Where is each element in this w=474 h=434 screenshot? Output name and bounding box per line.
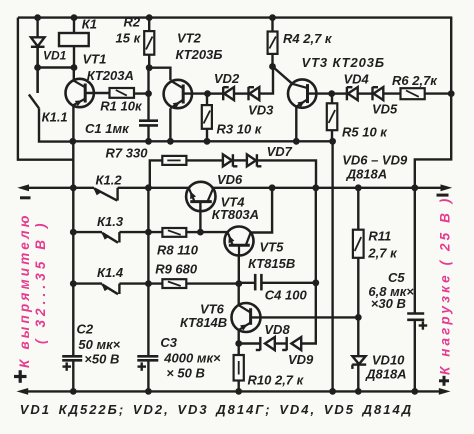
- svg-text:КТ814В: КТ814В: [180, 315, 227, 330]
- relay coil K1: [59, 33, 89, 46]
- resistor R6 2.7k: [401, 88, 425, 99]
- resistor R4 2.7k: [268, 32, 278, 54]
- wire VD4 to VD5: [358, 92, 373, 94]
- resistor R11 2.7k: [353, 230, 364, 258]
- zener VD8: [256, 337, 275, 350]
- resistor R10 2.7k: [234, 355, 244, 381]
- diode VD1: [31, 37, 45, 47]
- wire R3 bottom lead: [206, 129, 208, 142]
- wire R10 bottom lead: [237, 381, 239, 392]
- zener VD10: [352, 356, 366, 369]
- wire VT1 emitter lead: [72, 105, 74, 141]
- wire VD5 to R6: [383, 92, 400, 94]
- wire VD10 bottom lead: [357, 365, 359, 392]
- wire VT2 emitter lead: [169, 108, 171, 141]
- wire VD1 top lead: [36, 18, 38, 38]
- wire VD6 to VD7: [233, 159, 247, 161]
- wire VT4 base lead: [199, 203, 201, 233]
- svg-text:R10 2,7 к: R10 2,7 к: [248, 372, 305, 387]
- transistor VT5 KT815V: [225, 227, 254, 256]
- svg-text:VD6 – VD9: VD6 – VD9: [342, 153, 408, 168]
- resistor R8 110: [162, 228, 186, 237]
- wire VT3 emitter lead: [295, 107, 297, 142]
- wire VT6 emitter lead: [237, 330, 239, 343]
- wire R5 node column down to plus rail: [331, 141, 333, 391]
- svg-text:Д818А: Д818А: [346, 166, 387, 181]
- wire VT6 base row: [251, 316, 359, 318]
- svg-text:VT2: VT2: [177, 31, 202, 46]
- svg-text:4000 мк×: 4000 мк×: [163, 351, 221, 366]
- wire minus bus to VT4 emitter: [118, 187, 190, 189]
- zener VD9: [282, 337, 301, 350]
- svg-text:R3 10 к: R3 10 к: [217, 121, 263, 136]
- plus mark right bottom: [439, 376, 449, 386]
- minus mark right: [437, 194, 449, 197]
- svg-text:VD10: VD10: [372, 352, 405, 367]
- wire VD1 bottom lead: [36, 47, 38, 93]
- svg-text:VT1: VT1: [83, 51, 107, 66]
- wire VT4 base node to VT5 emitter: [200, 231, 227, 233]
- wire R5 bottom lead: [331, 130, 333, 141]
- transistor VT3 KT203B: [288, 79, 316, 107]
- svg-text:R2: R2: [124, 15, 141, 30]
- svg-text:R7 330: R7 330: [106, 146, 149, 161]
- svg-text:К выпрямителю: К выпрямителю: [17, 212, 32, 368]
- resistor R5 10k: [327, 103, 338, 130]
- wire minus bus left: [27, 187, 94, 189]
- svg-text:R6 2,7к: R6 2,7к: [392, 73, 438, 88]
- resistor R2 15k: [144, 31, 154, 55]
- wire VD8 to VD9: [275, 342, 287, 344]
- relay blade arrow K1.3: [102, 233, 109, 240]
- wire top rail: [18, 16, 452, 18]
- zener VD2: [223, 87, 234, 100]
- terminal arrow right minus: [441, 184, 453, 191]
- wire VT5 collector jog to bus: [251, 188, 273, 233]
- svg-text:VD5: VD5: [372, 102, 398, 117]
- svg-text:VD9: VD9: [288, 352, 314, 367]
- wire R2 to VT2 collector jog: [149, 68, 170, 81]
- svg-text:С3: С3: [160, 335, 177, 350]
- svg-text:С5: С5: [388, 270, 405, 285]
- svg-text:( 32...35 В ): ( 32...35 В ): [33, 219, 48, 344]
- capacitor C5 6.8uF: [407, 314, 424, 320]
- wire node column R2-R1-C1: [147, 68, 149, 121]
- plus mark C5: [419, 321, 428, 329]
- wire K1.4 row to R9: [119, 282, 162, 284]
- wire K1 coil top lead: [73, 18, 75, 33]
- svg-text:К1.4: К1.4: [97, 265, 124, 280]
- zener VD3: [249, 87, 260, 100]
- relay contact K1.2 tick: [116, 188, 118, 201]
- relay contact K1.1: [29, 47, 39, 109]
- minus mark left: [20, 196, 31, 199]
- svg-text:К1: К1: [82, 16, 97, 31]
- wire node to VD2: [208, 92, 224, 94]
- relay contact K1.2 blade: [94, 188, 117, 200]
- svg-text:С4 100: С4 100: [265, 288, 308, 303]
- wire R10 top lead: [237, 344, 239, 356]
- svg-text:VD6: VD6: [217, 172, 243, 187]
- svg-text:КТ203А: КТ203А: [87, 68, 134, 83]
- wire R6 to right rail: [425, 92, 452, 94]
- wire VT6 collector lead: [237, 283, 239, 305]
- relay contact K1.3 blade: [102, 233, 118, 243]
- wire plus row mid: [73, 140, 333, 142]
- wire mid column to C3: [147, 188, 149, 356]
- wire R7 left jog: [150, 160, 163, 188]
- zener VD6: [223, 154, 238, 166]
- svg-text:VD7: VD7: [267, 144, 293, 159]
- wire VD7 to bus jog: [257, 160, 316, 187]
- svg-text:VD4: VD4: [344, 72, 370, 87]
- wire plus bottom rail: [27, 390, 440, 392]
- zener VD4: [347, 87, 358, 100]
- svg-text:К1.1: К1.1: [42, 109, 68, 124]
- wire C3 bottom lead: [147, 360, 149, 391]
- transistor VT4 KT803A: [186, 182, 215, 211]
- svg-text:С1 1мк: С1 1мк: [85, 121, 130, 136]
- wire node to VD4: [332, 92, 347, 94]
- wire K1.3 row left: [73, 231, 102, 233]
- wire R1 to node: [132, 92, 148, 94]
- svg-text:VD1: VD1: [43, 49, 67, 63]
- capacitor C2 50uF: [62, 356, 82, 360]
- resistor R3 10k: [202, 105, 212, 129]
- wire K1 coil bottom lead: [73, 46, 75, 67]
- svg-text:2,7 к: 2,7 к: [367, 245, 398, 260]
- wire VD2 to VD3: [234, 92, 248, 94]
- wire C4 right to column: [262, 282, 316, 284]
- svg-text:VD3: VD3: [248, 103, 274, 118]
- svg-text:VD8: VD8: [264, 322, 290, 337]
- wire VT3 base to R5 node: [308, 92, 332, 94]
- wire R8 to VT4 base node: [186, 231, 200, 233]
- wire R2 top lead: [148, 18, 150, 32]
- svg-text:× 50 В: × 50 В: [166, 365, 205, 380]
- zener VD7: [247, 154, 262, 166]
- svg-text:КТ203Б: КТ203Б: [176, 47, 223, 62]
- svg-text:К нагрузке ( 25 В ): К нагрузке ( 25 В ): [437, 196, 452, 375]
- wire VT5 base node row to C4: [239, 282, 255, 284]
- wire right rail: [415, 18, 451, 314]
- plus mark left bottom: [14, 370, 27, 383]
- svg-text:R11: R11: [368, 228, 391, 243]
- transistor VT2 KT203B: [164, 80, 192, 109]
- svg-text:15 к: 15 к: [116, 31, 142, 46]
- svg-text:С2: С2: [77, 321, 94, 336]
- wire R7 to VD6: [186, 159, 222, 161]
- transistor VT1 KT203A: [66, 79, 94, 107]
- svg-text:R9 680: R9 680: [155, 262, 198, 277]
- svg-text:R8 110: R8 110: [157, 243, 199, 258]
- wire VT5 base lead: [238, 256, 240, 284]
- wire node row under VD1/K1: [38, 66, 74, 68]
- wire VT6 emitter node to VD8: [239, 342, 260, 344]
- wire R11 top lead: [357, 188, 359, 230]
- svg-text:VT3 КТ203Б: VT3 КТ203Б: [302, 55, 385, 70]
- resistor R9 680: [162, 279, 186, 288]
- capacitor C3 4000uF: [137, 356, 158, 360]
- wire R3 top lead: [206, 94, 208, 106]
- terminal arrow left minus: [17, 184, 29, 191]
- wire R4 to VT3 collector diagonal: [273, 67, 293, 84]
- terminal arrow left plus: [17, 388, 29, 395]
- wire R4 top lead: [271, 18, 273, 32]
- svg-text:КТ803А: КТ803А: [212, 207, 259, 222]
- wire VD3 to R4 jog: [259, 67, 273, 94]
- svg-text:VT5: VT5: [260, 239, 285, 254]
- wire VT2 base to node: [183, 92, 207, 94]
- relay blade arrow K1.2: [94, 189, 101, 196]
- resistor R7 330: [162, 156, 186, 165]
- capacitor C4 100: [255, 274, 261, 291]
- svg-text:VD2: VD2: [214, 71, 240, 86]
- wire C5 bottom to plus rail: [414, 320, 416, 392]
- svg-text:Д818А: Д818А: [365, 366, 406, 381]
- wire K1.4 row left: [73, 282, 102, 284]
- wire R11 bottom lead to VD10: [357, 258, 359, 357]
- capacitor C1 1uF: [139, 121, 158, 126]
- plus mark C3: [138, 362, 147, 370]
- wire R5 top lead: [331, 94, 333, 104]
- wire R4 bottom lead: [271, 54, 273, 67]
- wire K1.3 row to R8: [119, 231, 162, 233]
- wire minus bus VT4 collector to right: [211, 187, 442, 189]
- svg-text:×50 В: ×50 В: [84, 351, 119, 366]
- wire right column bus to VD9: [302, 188, 316, 344]
- svg-text:R1 10к: R1 10к: [100, 98, 143, 113]
- wire VT1 collector lead: [73, 68, 75, 81]
- relay contact K1.4 tick: [118, 284, 120, 294]
- svg-text:50 мк×: 50 мк×: [78, 337, 120, 352]
- wire left plus column: [72, 141, 74, 356]
- wire left rail: [18, 18, 74, 160]
- transistor VT6 KT814V: [232, 303, 261, 332]
- wire K1.1 lower lead and jog: [39, 108, 73, 141]
- zener VD5: [373, 87, 384, 100]
- wire C2 bottom lead: [72, 360, 74, 391]
- svg-text:×30 В: ×30 В: [371, 296, 406, 311]
- svg-text:К1.3: К1.3: [97, 214, 124, 229]
- wire VT1 base to R1: [85, 92, 109, 94]
- wire R9 to VT5 base node: [186, 282, 239, 284]
- relay contact K1.3 tick: [118, 232, 120, 242]
- svg-text:К1.2: К1.2: [96, 172, 123, 187]
- svg-text:R4 2,7 к: R4 2,7 к: [283, 31, 333, 46]
- svg-text:R5 10 к: R5 10 к: [342, 125, 388, 140]
- relay blade arrow K1.4: [102, 284, 109, 291]
- resistor R1 10k: [110, 88, 135, 98]
- wire C1 bottom lead: [147, 125, 149, 141]
- svg-text:КТ815В: КТ815В: [248, 256, 295, 271]
- terminal arrow right plus: [439, 388, 451, 395]
- relay contact K1.4 blade: [102, 284, 118, 294]
- svg-text:VD1 КД522Б; VD2, VD3 Д814Г: VD1 КД522Б; VD2, VD3 Д814Г; VD4, VD5 Д81…: [20, 402, 413, 417]
- wire R2 bottom lead: [148, 55, 150, 68]
- plus mark C2: [63, 362, 72, 370]
